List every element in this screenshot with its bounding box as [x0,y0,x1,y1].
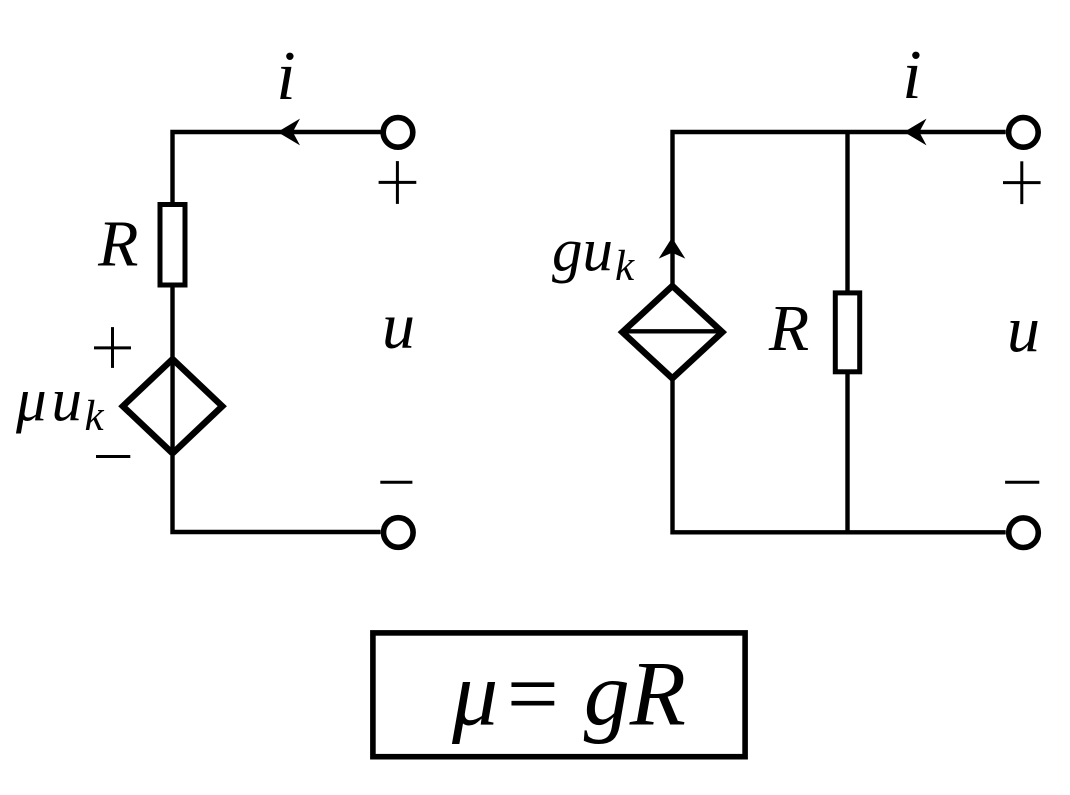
svg-text:k: k [85,393,105,440]
svg-text:u: u [382,289,415,362]
svg-text:u: u [1007,293,1040,366]
svg-text:gu: gu [552,218,613,285]
svg-text:μ: μ [451,643,498,745]
svg-text:i: i [276,38,295,115]
svg-text:R: R [97,207,138,280]
svg-text:=: = [501,643,563,745]
svg-text:gR: gR [584,643,686,745]
svg-text:R: R [768,292,809,365]
svg-text:k: k [615,243,635,290]
svg-text:i: i [902,37,921,114]
